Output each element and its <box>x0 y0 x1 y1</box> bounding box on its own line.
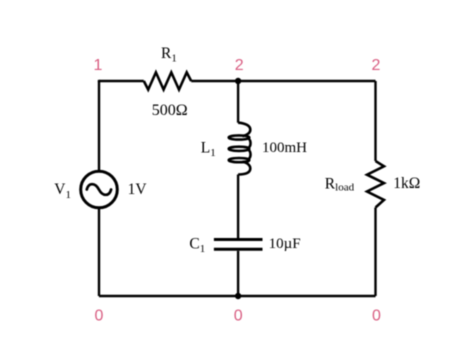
svg-text:0: 0 <box>234 307 243 324</box>
inductor L1 arc 2 <box>249 150 251 159</box>
wire middle branch between L1 and C1 <box>237 175 239 239</box>
voltage source V1 circle <box>81 171 118 208</box>
wire left top corner joint <box>98 80 100 82</box>
wire middle branch upper (node 2 to L1) <box>237 81 239 123</box>
svg-text:0: 0 <box>372 307 381 324</box>
svg-text:100mH: 100mH <box>262 140 307 156</box>
wire bottom rail <box>99 295 376 297</box>
svg-text:1: 1 <box>94 57 103 74</box>
svg-text:1V: 1V <box>128 181 148 198</box>
resistor R1 <box>144 72 191 89</box>
inductor L1 loop 1 <box>229 135 250 139</box>
svg-text:1kΩ: 1kΩ <box>393 175 420 192</box>
svg-text:R1: R1 <box>161 45 177 64</box>
inductor L1 loop 2 <box>229 147 250 151</box>
capacitor C1 top plate <box>214 238 263 241</box>
wire right vertical upper (node 2 to Rload) <box>374 81 376 161</box>
inductor L1 top hook <box>238 123 250 137</box>
wire top-right segment (R1 to node 2 corner) <box>191 80 375 82</box>
wire top-left segment (node 1 to R1) <box>99 80 144 82</box>
junction bottom node dot <box>235 293 241 299</box>
svg-text:L1: L1 <box>201 139 216 159</box>
sine wave inside V1 <box>87 184 111 195</box>
svg-text:500Ω: 500Ω <box>152 102 188 119</box>
svg-text:2: 2 <box>371 57 380 74</box>
svg-text:2: 2 <box>235 57 244 74</box>
capacitor C1 bottom plate <box>214 248 263 251</box>
inductor L1 bottom hook <box>238 162 250 175</box>
svg-text:10µF: 10µF <box>269 236 301 252</box>
wire left vertical lower (V1 down to node 0) <box>98 208 100 297</box>
svg-text:C1: C1 <box>189 236 205 256</box>
svg-text:0: 0 <box>95 307 104 324</box>
inductor L1 arc 1 <box>249 139 251 148</box>
resistor Rload <box>367 161 384 208</box>
wire middle branch lower (C1 to node 0) <box>237 251 239 296</box>
svg-text:V1: V1 <box>54 181 71 201</box>
junction node 2 dot <box>235 78 241 84</box>
wire left vertical upper (node 1 down to V1) <box>98 81 100 172</box>
svg-text:Rload: Rload <box>325 175 355 193</box>
wire right vertical lower (Rload to node 0) <box>374 208 376 297</box>
inductor L1 loop 3 <box>229 158 250 162</box>
